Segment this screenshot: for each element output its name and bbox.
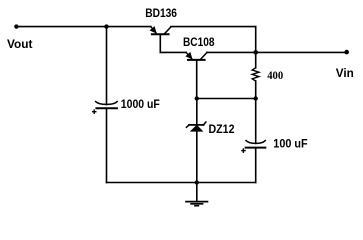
- wire bottom ground rail: [107, 182, 256, 184]
- wire Q2 collector to Vin node: [207, 51, 256, 53]
- transistor Q2 BC108: [186, 52, 207, 60]
- svg-text:Vout: Vout: [7, 37, 33, 51]
- wire resistor bottom lead: [255, 81, 257, 99]
- node Vout terminal dot: [14, 24, 18, 28]
- wire Q1 collector to top-right corner: [171, 26, 256, 28]
- wire C2 bottom lead: [255, 148, 257, 183]
- capacitor C2 100uF: [242, 141, 265, 153]
- wire right vertical top corner down to Vin node: [255, 27, 257, 53]
- svg-text:BD136: BD136: [145, 6, 177, 20]
- node junction ground: [195, 180, 199, 184]
- node junction base row right: [254, 96, 258, 100]
- svg-text:DZ12: DZ12: [209, 122, 235, 136]
- svg-text:BC108: BC108: [183, 35, 215, 49]
- wire Q1 base corner to Q2 emitter: [160, 51, 186, 53]
- zener diode DZ12: [186, 122, 206, 131]
- wire resistor top lead: [255, 52, 257, 67]
- transistor Q1 BD136: [151, 27, 171, 35]
- wire Vin node to Vin terminal: [256, 51, 347, 53]
- wire C1 bottom lead: [106, 108, 108, 182]
- wire Q2 base lead down: [196, 60, 198, 99]
- svg-text:100 uF: 100 uF: [273, 136, 307, 150]
- svg-text:1000 uF: 1000 uF: [121, 97, 160, 111]
- wire Q1 base lead down: [159, 34, 161, 52]
- wire zener top lead: [196, 99, 198, 125]
- ground: [185, 202, 208, 206]
- wire zener bottom lead: [196, 131, 198, 183]
- node junction top-left: [104, 24, 108, 28]
- node junction Vin: [253, 50, 258, 55]
- wire C2 top lead: [255, 99, 257, 144]
- resistor R1 400: [252, 68, 259, 81]
- wire node row base to resistor bottom: [197, 98, 256, 100]
- node junction base row left: [195, 96, 199, 100]
- node Vin terminal dot: [344, 50, 349, 55]
- svg-text:Vin: Vin: [336, 66, 354, 80]
- capacitor C1 1000uF: [93, 102, 118, 114]
- wire ground stem: [196, 183, 198, 202]
- wire top rail Vout to Q1 emitter: [16, 26, 150, 28]
- svg-text:400: 400: [267, 70, 283, 82]
- wire left vertical to C1: [106, 27, 108, 105]
